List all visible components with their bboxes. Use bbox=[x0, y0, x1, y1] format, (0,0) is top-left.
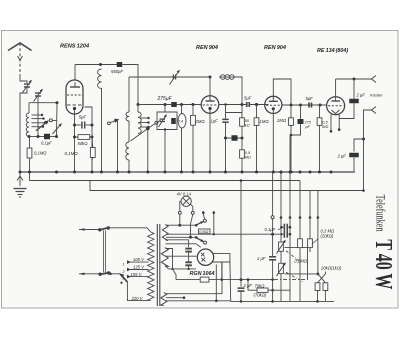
RENS1204 anode bbox=[74, 82, 76, 87]
V3 anode loop wire bbox=[273, 79, 291, 105]
capacitor 5uF interstage bbox=[219, 104, 247, 106]
wire trimmer C2 to node bbox=[37, 96, 39, 137]
mains terminal 1 bbox=[79, 228, 85, 231]
padder down-lead bbox=[164, 130, 166, 173]
long heater line y=234.2 bbox=[166, 233, 281, 235]
svg-text:20kΩ(1kΩ): 20kΩ(1kΩ) bbox=[320, 265, 342, 270]
vertical x=310 segment bbox=[309, 218, 311, 253]
capacitor 0.1uF pair upper bbox=[281, 226, 283, 228]
svg-text:REN 904: REN 904 bbox=[196, 45, 218, 51]
svg-text:155 V: 155 V bbox=[131, 272, 143, 277]
capacitor 2uF to ground bus bbox=[354, 139, 364, 152]
output triode RE134 envelope bbox=[327, 97, 345, 115]
speaker terminal 1 bbox=[372, 76, 377, 83]
wire from antenna trimmer down bbox=[20, 87, 27, 172]
svg-text:7,4: 7,4 bbox=[178, 120, 183, 124]
svg-text:RENS 1204: RENS 1204 bbox=[60, 44, 90, 50]
V2 anode wire from y=77 bbox=[209, 77, 211, 96]
RE134 grid dashes bbox=[328, 105, 344, 107]
vertical x=281 bbox=[280, 172, 282, 242]
svg-text:1: 1 bbox=[123, 263, 125, 267]
RENS1204 cathode bbox=[73, 107, 76, 110]
V2 heater stubs bbox=[202, 211, 205, 214]
lamp bracket left bbox=[180, 201, 182, 211]
svg-text:MΩ: MΩ bbox=[322, 125, 328, 129]
V2 REN904a anode bbox=[206, 100, 215, 102]
RGN cathode lead down bbox=[215, 265, 217, 301]
V3 cathode lead bbox=[272, 113, 274, 172]
svg-text:2MΩ: 2MΩ bbox=[276, 118, 287, 123]
anode coupling coil L4 bbox=[219, 76, 234, 78]
mains wire to primary top bbox=[108, 228, 151, 232]
wire 2uF to filament bbox=[339, 103, 354, 118]
RE134 anode lead to speaker bbox=[335, 79, 337, 97]
mains terminal 2 bbox=[79, 273, 85, 276]
ganged-control dashes pot1 bbox=[286, 251, 300, 261]
voltage selector wiper bbox=[109, 273, 120, 275]
vertical x=290 bbox=[289, 135, 291, 301]
RE134 filament leads with dots bbox=[330, 114, 332, 131]
antenna lead-in wire (dashed) bbox=[19, 43, 21, 74]
svg-text:550pF: 550pF bbox=[111, 69, 123, 74]
svg-text:0,3MΩ: 0,3MΩ bbox=[295, 258, 308, 263]
svg-text:2 μF: 2 μF bbox=[356, 93, 366, 98]
svg-text:RE 134 (804): RE 134 (804) bbox=[317, 48, 348, 54]
coil taps bbox=[32, 114, 43, 116]
RENS1204 anode wire to top node bbox=[74, 65, 76, 81]
capacitor 275pF tone bbox=[300, 105, 302, 119]
padder trimmer arrow bbox=[160, 118, 166, 120]
lamp bracket right bbox=[190, 204, 193, 211]
svg-text:5μF: 5μF bbox=[306, 96, 314, 101]
wire to grid resistor branch bbox=[56, 103, 59, 137]
RGN1064 filament marks bbox=[201, 253, 205, 257]
resistor 1MOhm interstage bbox=[255, 103, 258, 106]
tap 155V bbox=[127, 275, 131, 279]
lamp leads down bbox=[179, 214, 181, 225]
capacitor 550pF bbox=[117, 62, 123, 67]
loop right side down to bus jog bbox=[229, 262, 232, 301]
capacitor 2uF smoothing bbox=[240, 181, 242, 287]
padder fixed capacitor bbox=[171, 118, 176, 124]
grid wire to RE134 bbox=[282, 104, 327, 106]
junction dot node B bbox=[137, 103, 140, 106]
svg-text:4V 0,1A: 4V 0,1A bbox=[177, 191, 192, 196]
RENS1204 screen lead bbox=[85, 107, 93, 172]
V2 cathode lead bbox=[209, 113, 211, 172]
resistor pair left bbox=[315, 283, 320, 291]
bottom return line with jog bbox=[231, 300, 334, 303]
RF choke coil bbox=[126, 142, 129, 160]
coil band selector arm bbox=[36, 122, 47, 131]
resistor 50kOhm grid bbox=[240, 118, 245, 126]
svg-text:70kΩ: 70kΩ bbox=[255, 283, 266, 288]
smoothing resistor box bbox=[200, 277, 209, 282]
mains switch bbox=[98, 228, 101, 231]
filament tap to bottom bus bbox=[166, 300, 231, 302]
vertical x=300 segment bbox=[299, 218, 301, 302]
svg-text:2MΩ: 2MΩ bbox=[195, 119, 206, 124]
filament tap to anode loop bbox=[166, 262, 222, 294]
band switch wiper arm bbox=[146, 127, 150, 131]
padder loop rectangle bbox=[157, 105, 177, 130]
trimmer capacitor C-ant bbox=[20, 74, 27, 83]
capacitor 5uF to output grid bbox=[308, 103, 310, 108]
rectifier anode capacitor a bbox=[185, 248, 192, 250]
ground bus A bbox=[20, 171, 355, 173]
tetrode RENS1204 envelope (capsule) bbox=[66, 80, 83, 114]
loop to HV line bbox=[221, 262, 223, 280]
grid wire y=104.5 RENS to REN bbox=[138, 104, 201, 106]
svg-text:Köstler: Köstler bbox=[370, 93, 383, 98]
svg-text:REN 904: REN 904 bbox=[264, 45, 286, 51]
capacitor 2uF coupling bbox=[353, 79, 355, 99]
svg-text:0,05Ω: 0,05Ω bbox=[199, 230, 209, 234]
svg-text:(70kΩ): (70kΩ) bbox=[254, 292, 267, 297]
rectifier RGN1064 envelope bbox=[197, 249, 213, 265]
rectifier filament winding bbox=[161, 293, 167, 306]
heater tap D to rectifier anode bbox=[166, 244, 201, 247]
variable tuning capacitor C3 on anode line bbox=[172, 75, 174, 80]
resistor 0.5MOhm bbox=[240, 150, 245, 158]
svg-text:T 40 W: T 40 W bbox=[370, 239, 396, 289]
svg-text:0,1MΩ: 0,1MΩ bbox=[65, 151, 79, 156]
choke down-lead bbox=[101, 88, 103, 172]
HV bottom lead bbox=[166, 266, 197, 269]
potentiometer 1 bbox=[279, 242, 284, 251]
rectifier anode capacitor b bbox=[185, 261, 192, 263]
bus C heater bbox=[90, 181, 310, 191]
bus B heater bbox=[30, 180, 301, 182]
RENS1204 cathode lead bbox=[74, 110, 76, 172]
svg-text:Telefunken: Telefunken bbox=[374, 195, 388, 232]
tap 125V bbox=[127, 268, 131, 272]
svg-text:1MΩ: 1MΩ bbox=[260, 119, 270, 124]
grid choke L2 bbox=[98, 69, 102, 89]
ground symbol bbox=[19, 172, 21, 186]
capacitor 5uF cathode bbox=[75, 124, 81, 126]
antenna bbox=[8, 43, 32, 51]
HV line y=279.6 bbox=[176, 279, 200, 281]
speaker branch down at x=317.9 bbox=[317, 191, 319, 218]
vertical x=318 segment bbox=[317, 218, 319, 274]
capacitor 2uF output bbox=[272, 219, 274, 257]
heater tap C to anode caps bbox=[166, 240, 189, 247]
resistor on x=310 bbox=[308, 239, 313, 248]
wiper down-lead bbox=[117, 121, 119, 173]
variable capacitor C2 bbox=[35, 92, 41, 94]
svg-text:2 μF: 2 μF bbox=[337, 154, 347, 159]
wire coil to grid-leak branch bbox=[233, 77, 242, 118]
V2 REN904a grid bbox=[203, 104, 218, 106]
IF transformer secondary coil bbox=[138, 112, 141, 134]
resistor 0.1MOhm screen bbox=[90, 148, 95, 158]
resistor pair right bbox=[323, 283, 328, 291]
svg-text:2 μF: 2 μF bbox=[256, 256, 266, 261]
svg-text:0,1μF: 0,1μF bbox=[265, 227, 276, 232]
wire 550pF to IF transformer bbox=[123, 65, 139, 113]
svg-text:μF: μF bbox=[305, 125, 311, 129]
ganged-control dashes pot2 bbox=[286, 272, 303, 282]
selector trimmer arrow bbox=[53, 124, 62, 135]
V2 REN904a cathode bbox=[208, 107, 211, 110]
secondary taps bbox=[140, 117, 149, 119]
svg-text:2 μF: 2 μF bbox=[243, 283, 253, 288]
svg-text:275: 275 bbox=[304, 121, 312, 125]
pin circle V3 cathode bbox=[272, 172, 274, 216]
pickup switch 1 bbox=[195, 224, 198, 227]
svg-text:RGN 1064: RGN 1064 bbox=[190, 271, 215, 277]
heater tap line y=237.3 bbox=[166, 236, 196, 238]
lead to HV smoothing line bbox=[173, 269, 177, 280]
stepped heater feed line bbox=[363, 190, 365, 192]
resistor 0.1MOhm (antenna) bbox=[29, 137, 31, 149]
resistor 0.05 Ohm box bbox=[199, 229, 211, 234]
transformer primary winding (zigzag) bbox=[148, 232, 154, 301]
resistor 2MOhm bbox=[192, 103, 195, 106]
svg-text:0,5: 0,5 bbox=[322, 121, 328, 125]
V3 REN904b anode bbox=[269, 100, 278, 102]
svg-text:5μF: 5μF bbox=[79, 115, 87, 120]
RENS1204 grids (dashed) bbox=[67, 94, 83, 96]
svg-text:105 V: 105 V bbox=[133, 257, 145, 262]
svg-text:125 V: 125 V bbox=[133, 265, 145, 270]
V3 REN904b grid bbox=[266, 104, 280, 106]
RGN anode connection loop bbox=[212, 253, 230, 262]
switch link bars bbox=[103, 231, 105, 273]
svg-text:220 V: 220 V bbox=[131, 296, 144, 301]
svg-text:5μF: 5μF bbox=[244, 96, 252, 101]
grid wire y=136.5 with 0.1uF bbox=[29, 136, 44, 138]
svg-text:1μF: 1μF bbox=[211, 119, 219, 124]
svg-text:2: 2 bbox=[122, 270, 125, 274]
capacitor 0.1uF (input) bbox=[44, 134, 50, 140]
svg-text:0,5: 0,5 bbox=[245, 151, 251, 155]
svg-text:h: h bbox=[123, 277, 125, 281]
svg-text:0,1μF: 0,1μF bbox=[41, 141, 52, 146]
svg-text:kΩ: kΩ bbox=[245, 124, 250, 128]
pickup switch 2 bbox=[195, 236, 198, 239]
capacitor 1uF bbox=[225, 105, 227, 120]
wire node row y=103 bbox=[29, 102, 57, 104]
resistor 0.5MOhm output grid-leak bbox=[319, 105, 321, 118]
wave-change arrow bbox=[110, 121, 115, 123]
filament tap stub bbox=[166, 297, 184, 299]
HV centre tap bbox=[166, 255, 197, 257]
triode V2 REN904a envelope bbox=[201, 96, 219, 114]
selector to 220V tap bbox=[127, 282, 148, 301]
svg-text:275μF: 275μF bbox=[157, 96, 173, 102]
tap 105V bbox=[127, 260, 131, 264]
capacitor 275pF bbox=[171, 102, 177, 107]
secondary winding HV bbox=[161, 248, 168, 267]
grid-leak capacitor bbox=[226, 137, 243, 139]
svg-text:(20kΩ): (20kΩ) bbox=[321, 233, 334, 238]
potentiometer 2 bbox=[279, 263, 284, 273]
HV top lead down bbox=[166, 249, 173, 269]
wire anode line y=77 to T1 bbox=[129, 76, 210, 78]
resistor 2MOhm V3 grid bbox=[290, 105, 292, 118]
antenna coil L1 bbox=[28, 103, 30, 113]
speaker terminal 2 bbox=[372, 107, 377, 114]
IF transformer primary coil bbox=[128, 77, 130, 112]
resistor on x=300 bbox=[298, 239, 303, 248]
bleeder 70k loop bbox=[247, 280, 249, 291]
svg-text:MΩ: MΩ bbox=[245, 156, 251, 160]
resistor 50kOhm cathode bbox=[75, 136, 79, 138]
svg-text:50kΩ: 50kΩ bbox=[78, 141, 89, 146]
transformer core bbox=[156, 224, 158, 306]
svg-text:0,1MΩ: 0,1MΩ bbox=[34, 151, 47, 156]
bus C to speaker-line link bbox=[310, 190, 364, 192]
RE134 anode bbox=[332, 100, 341, 102]
lamp indicator 7.4 oval bbox=[180, 103, 183, 106]
dashed HV continuation bbox=[274, 279, 308, 281]
secondary winding 4V top bbox=[162, 225, 168, 241]
triode V3 REN904b envelope bbox=[265, 96, 282, 113]
V3 REN904b cathode bbox=[272, 107, 275, 110]
capacitor 0.1uF pair lower bbox=[281, 233, 283, 235]
band switch down-lead bbox=[147, 130, 149, 172]
RE134 filament bbox=[332, 110, 340, 114]
crossover wires bbox=[317, 273, 320, 276]
heater tap line y=225.2 bbox=[166, 224, 196, 226]
speaker return wire bbox=[364, 110, 372, 191]
